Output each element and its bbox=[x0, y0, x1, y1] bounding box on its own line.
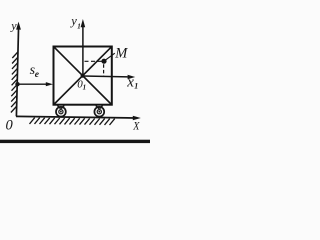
point M dot bbox=[101, 59, 106, 64]
leader line to label M bbox=[106, 53, 115, 60]
left wheel bbox=[56, 107, 66, 117]
dashed vertical from M bbox=[103, 64, 105, 76]
junction dot on wall bbox=[15, 82, 19, 86]
dashed horizontal to M bbox=[85, 60, 102, 62]
y1 axis bbox=[82, 26, 84, 76]
svg-text:X: X bbox=[132, 120, 140, 133]
svg-text:y: y bbox=[10, 18, 17, 32]
svg-text:1: 1 bbox=[83, 83, 87, 91]
svg-text:0: 0 bbox=[6, 117, 14, 133]
right wheel bracket bbox=[96, 106, 103, 109]
svg-text:y: y bbox=[69, 14, 77, 28]
right wheel bbox=[94, 107, 104, 117]
x1 axis bbox=[83, 75, 129, 78]
center dot O1 bbox=[81, 74, 85, 78]
left wheel bracket bbox=[57, 106, 64, 109]
svg-text:M: M bbox=[114, 46, 128, 62]
cart diagonal TR-BL bbox=[54, 47, 111, 104]
ground hatching bbox=[30, 118, 115, 125]
bottom page rule bbox=[0, 140, 150, 143]
ground / x axis bbox=[16, 116, 135, 118]
y axis arrowhead bbox=[16, 22, 21, 30]
svg-text:1: 1 bbox=[77, 22, 81, 30]
svg-text:x: x bbox=[126, 75, 134, 91]
cart diagonal TL-BR bbox=[54, 47, 111, 104]
cart body (square) bbox=[54, 47, 112, 105]
svg-text:1: 1 bbox=[134, 82, 138, 91]
wall hatching bbox=[11, 52, 18, 113]
fixed y axis (wall line, slightly leaning) bbox=[16, 30, 18, 117]
s_e displacement arrow bbox=[17, 83, 47, 85]
